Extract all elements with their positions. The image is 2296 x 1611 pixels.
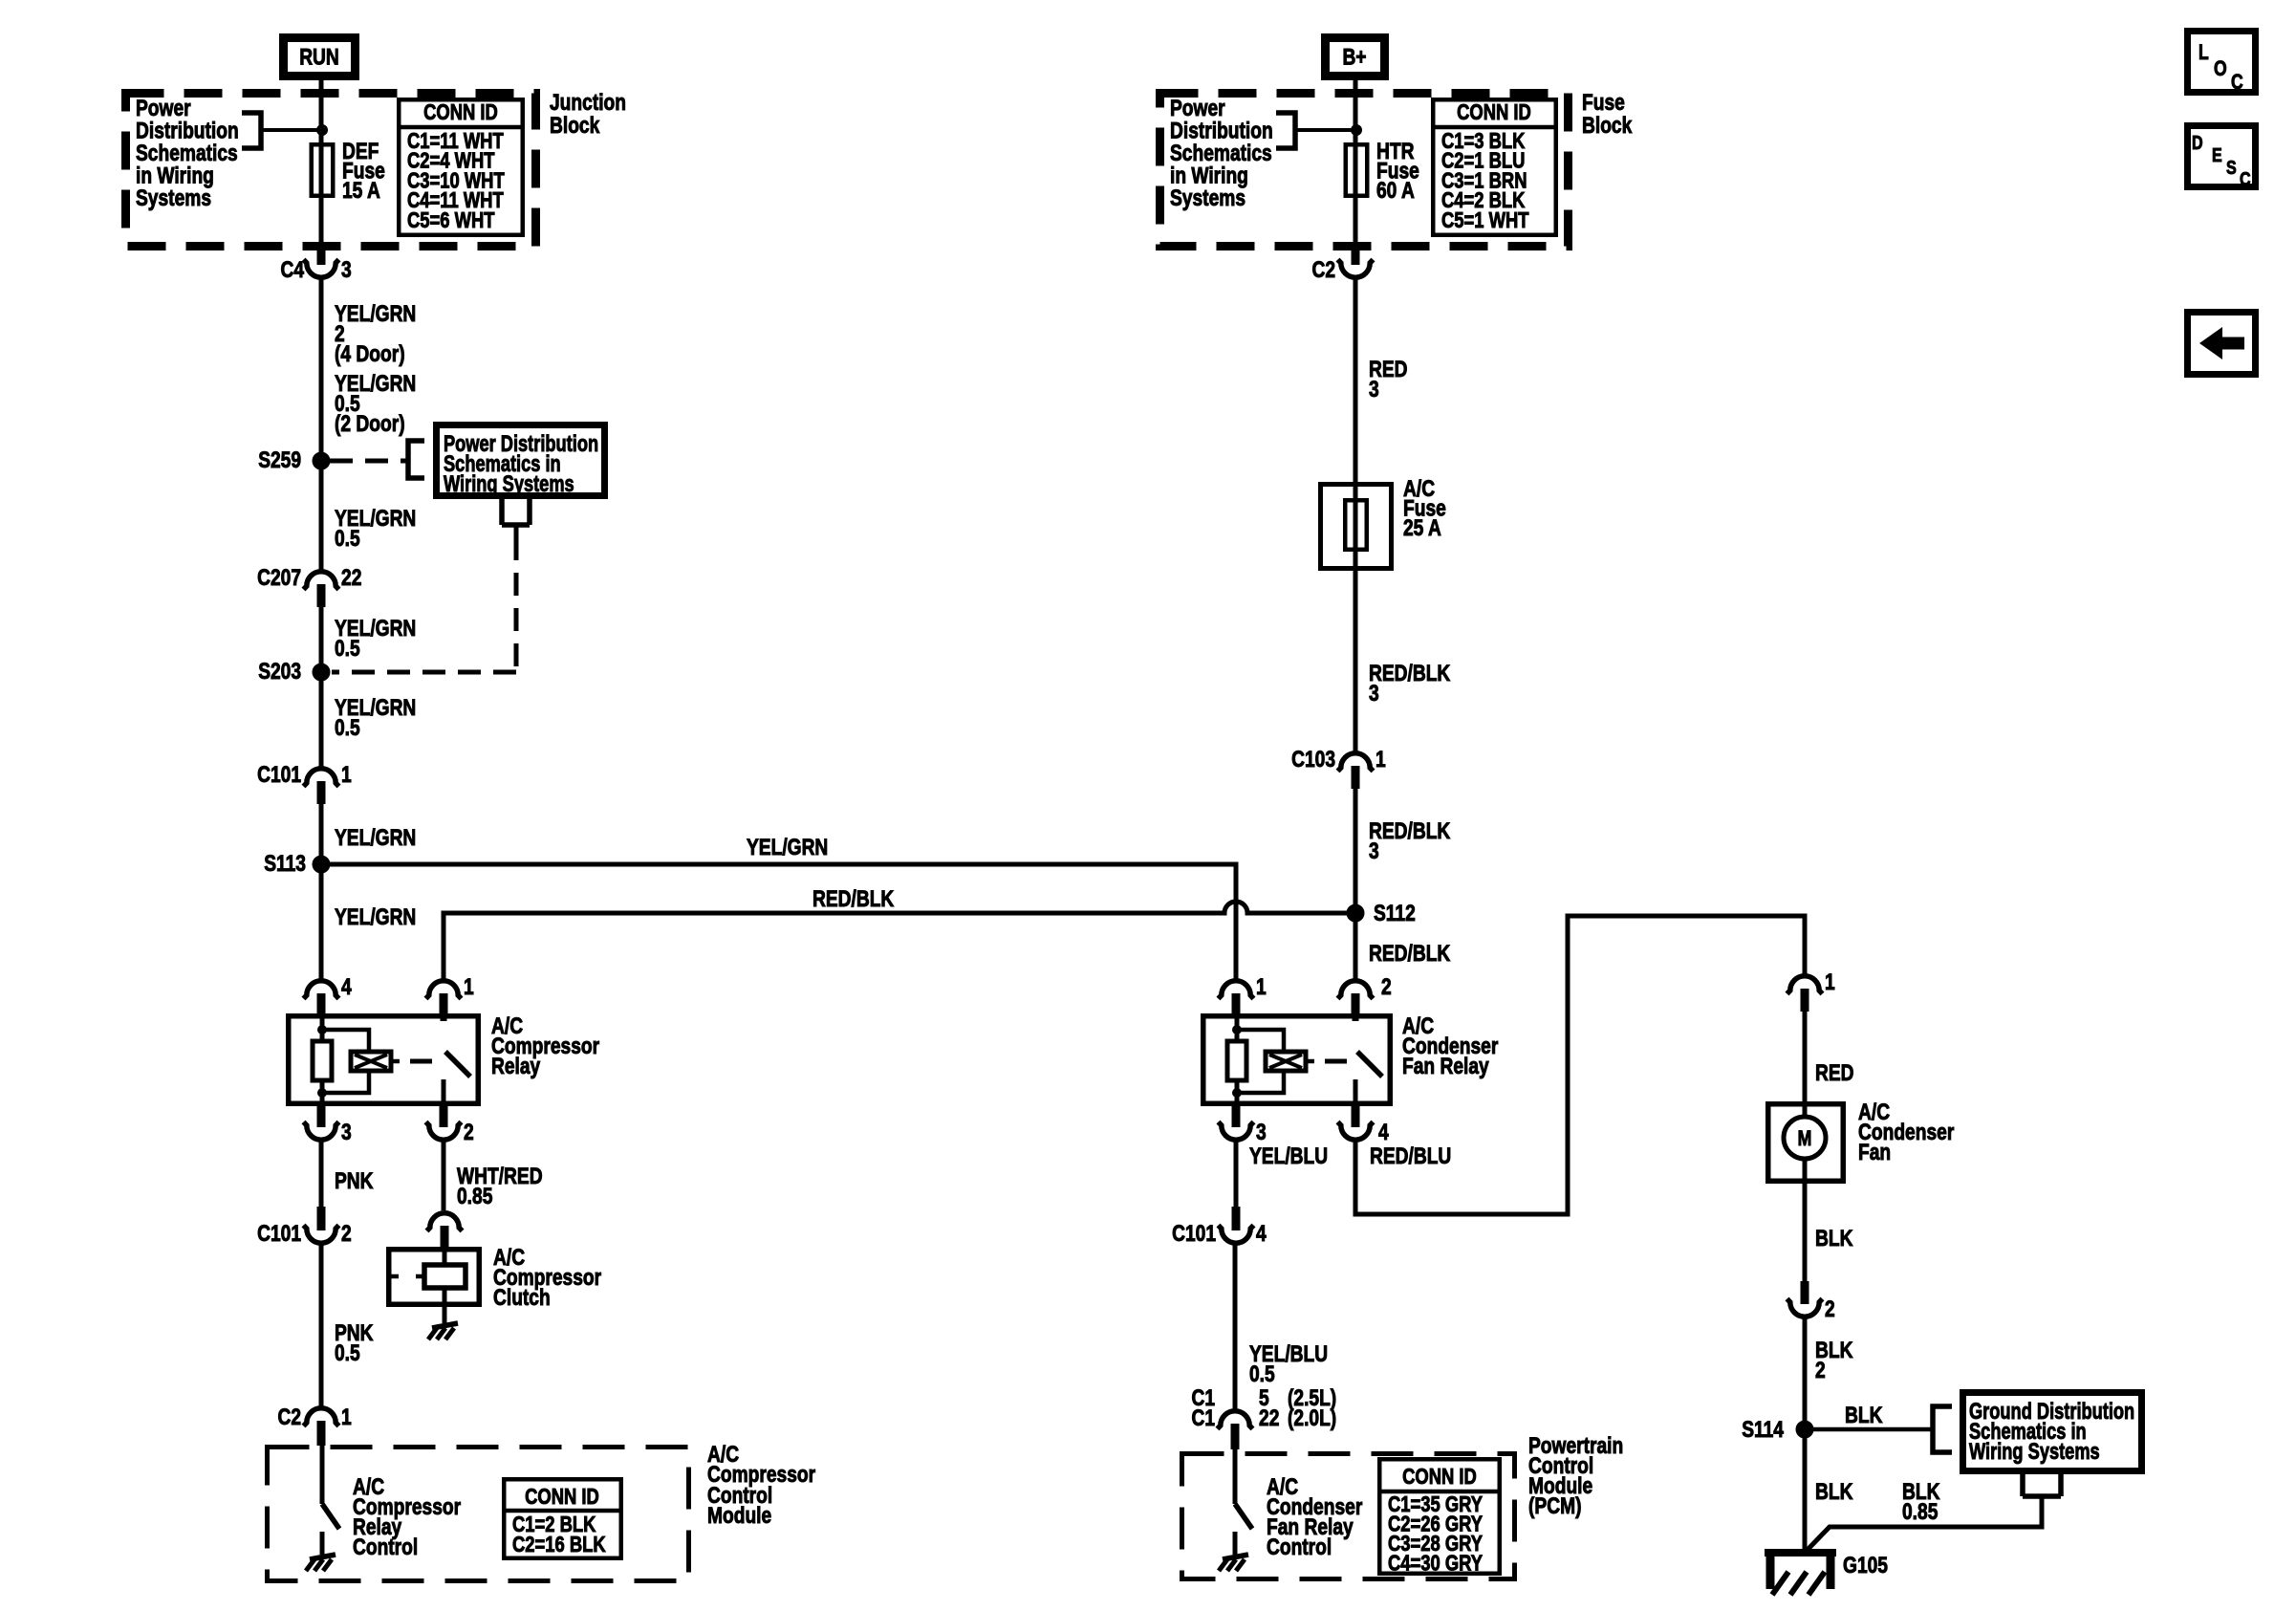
svg-text:Fuse: Fuse	[1582, 90, 1625, 116]
svg-text:0.5: 0.5	[335, 715, 360, 741]
svg-text:C101: C101	[1172, 1221, 1216, 1247]
condenser fan relay box	[1203, 1016, 1391, 1104]
connector compressor relay pin 4	[304, 981, 339, 1013]
connector clutch pin	[427, 1213, 463, 1247]
svg-text:3: 3	[1369, 838, 1379, 864]
svg-text:RED/BLK: RED/BLK	[1369, 941, 1451, 967]
svg-text:3: 3	[1369, 681, 1379, 707]
splice S259	[313, 452, 330, 469]
splice S114	[1796, 1421, 1813, 1438]
connector C1 pin 22 (2.0L)	[1218, 1411, 1253, 1449]
svg-text:C103: C103	[1291, 747, 1335, 773]
svg-text:25 A: 25 A	[1403, 515, 1441, 541]
wire C103 to S112	[1354, 789, 1358, 980]
svg-text:Block: Block	[550, 113, 600, 139]
wire S113 to compressor relay pin 4	[319, 864, 324, 980]
svg-text:C101: C101	[257, 1221, 301, 1247]
svg-text:Module: Module	[707, 1503, 771, 1529]
svg-text:1: 1	[1825, 969, 1835, 995]
svg-text:S203: S203	[258, 659, 301, 685]
svg-text:Clutch: Clutch	[493, 1285, 551, 1311]
svg-text:0.85: 0.85	[457, 1184, 492, 1209]
connector condenser fan relay pin 1	[1219, 981, 1254, 1013]
wire RUN to DEF fuse	[319, 80, 324, 243]
note box Power Distribution Schematics	[437, 425, 605, 496]
svg-text:C207: C207	[257, 565, 301, 591]
svg-text:0.5: 0.5	[335, 526, 360, 552]
icon LOC	[2188, 32, 2256, 93]
svg-text:0.5: 0.5	[335, 1340, 360, 1366]
svg-text:(PCM): (PCM)	[1528, 1493, 1582, 1519]
CONN ID table junction block	[399, 99, 523, 235]
module box A/C Compressor Control Module	[268, 1448, 689, 1581]
condenser fan relay solenoid	[1266, 1052, 1347, 1071]
svg-text:L: L	[2199, 40, 2209, 64]
connector condenser fan pin 2	[1787, 1281, 1823, 1317]
CONN ID table fuse block	[1433, 99, 1556, 235]
svg-text:0.85: 0.85	[1902, 1499, 1938, 1525]
fuse HTR 60A	[1346, 144, 1368, 196]
svg-text:G105: G105	[1843, 1553, 1888, 1578]
compressor relay switch	[444, 1013, 470, 1106]
connector condenser fan relay pin 2	[1338, 981, 1374, 1013]
svg-text:PNK: PNK	[335, 1168, 374, 1194]
svg-text:C5=6 WHT: C5=6 WHT	[407, 207, 495, 232]
svg-text:4: 4	[341, 974, 352, 1000]
svg-text:1: 1	[1256, 974, 1267, 1000]
svg-text:15 A: 15 A	[342, 178, 380, 204]
dashed link note to S203	[502, 499, 530, 525]
condenser fan relay switch	[1355, 1013, 1382, 1106]
wire RED/BLU relay pin4 to condenser fan pin 1	[1355, 916, 1805, 1214]
svg-text:2: 2	[341, 1221, 352, 1247]
wire C2 to C103	[1354, 278, 1358, 752]
svg-text:3: 3	[341, 1120, 352, 1145]
svg-text:D: D	[2192, 133, 2203, 154]
connector compressor relay pin 1	[426, 981, 462, 1013]
svg-text:Junction: Junction	[550, 90, 626, 116]
node junction at DEF fuse	[317, 125, 328, 136]
svg-text:(2.0L): (2.0L)	[1288, 1405, 1336, 1431]
note box Ground Distribution Schematics	[1963, 1393, 2142, 1471]
svg-text:YEL/BLU: YEL/BLU	[1249, 1143, 1328, 1169]
svg-text:1: 1	[341, 1404, 352, 1430]
svg-text:1: 1	[464, 974, 474, 1000]
svg-text:Control: Control	[353, 1535, 418, 1560]
svg-text:CONN ID: CONN ID	[525, 1484, 599, 1509]
svg-text:S114: S114	[1742, 1417, 1784, 1443]
connector compressor relay pin 3	[304, 1106, 339, 1140]
svg-text:C101: C101	[257, 762, 301, 788]
svg-text:2: 2	[1381, 974, 1392, 1000]
svg-text:RED/BLK: RED/BLK	[1369, 661, 1451, 686]
condenser fan relay coil	[1227, 1013, 1284, 1106]
svg-text:CONN ID: CONN ID	[423, 99, 498, 124]
svg-text:22: 22	[1259, 1405, 1279, 1431]
svg-text:S259: S259	[258, 447, 301, 473]
svg-text:Block: Block	[1582, 113, 1633, 139]
svg-text:CONN ID: CONN ID	[1402, 1464, 1477, 1489]
svg-text:RUN: RUN	[299, 45, 339, 71]
svg-text:RED: RED	[1815, 1060, 1854, 1086]
switch A/C Compressor Relay Control	[322, 1446, 339, 1555]
connector C2 fuse block	[1338, 243, 1374, 277]
icon DESC	[2188, 126, 2256, 187]
svg-text:C2: C2	[278, 1404, 302, 1430]
wire C207 to C101	[319, 607, 324, 768]
svg-text:3: 3	[341, 257, 352, 283]
svg-text:S112: S112	[1374, 901, 1416, 926]
fuse A/C 25A	[1321, 485, 1392, 569]
svg-text:Wiring Systems: Wiring Systems	[1969, 1439, 2100, 1465]
svg-text:B+: B+	[1342, 45, 1366, 71]
svg-text:C5=1 WHT: C5=1 WHT	[1441, 207, 1529, 232]
splice S203	[313, 664, 330, 681]
svg-text:YEL/GRN: YEL/GRN	[335, 904, 416, 930]
ground at clutch	[428, 1323, 458, 1339]
ground G105	[1765, 1553, 1836, 1595]
svg-text:22: 22	[341, 565, 361, 591]
svg-text:2: 2	[1815, 1358, 1826, 1383]
compressor relay box	[289, 1016, 479, 1104]
component A/C Compressor Clutch	[389, 1250, 480, 1305]
wire ground note to G105	[2023, 1474, 2061, 1496]
fuse block dashed box	[1160, 94, 1569, 247]
wire C101 to PCM C1	[1233, 1244, 1238, 1410]
svg-text:C2=16 BLK: C2=16 BLK	[512, 1532, 606, 1557]
svg-text:0.5: 0.5	[1249, 1361, 1275, 1387]
svg-text:RED/BLK: RED/BLK	[1369, 818, 1451, 844]
wire YEL/GRN S113 to condenser fan relay pin 1	[321, 864, 1236, 980]
wire pin3 to C101 pin4	[1234, 1141, 1239, 1208]
junction block note bracket	[242, 113, 261, 148]
connector C101 pin 1	[304, 769, 339, 804]
svg-text:S: S	[2226, 158, 2237, 179]
CONN ID table PCM	[1379, 1459, 1500, 1574]
splice S112	[1347, 904, 1364, 922]
svg-text:YEL/GRN: YEL/GRN	[747, 835, 828, 860]
connector condenser fan relay pin 4	[1338, 1106, 1374, 1140]
svg-text:C: C	[2231, 70, 2243, 94]
svg-text:E: E	[2212, 145, 2222, 166]
svg-text:1: 1	[1375, 747, 1386, 773]
svg-text:C2: C2	[1312, 257, 1336, 283]
svg-text:C4: C4	[281, 257, 305, 283]
svg-text:YEL/GRN: YEL/GRN	[335, 825, 416, 851]
svg-text:Systems: Systems	[136, 185, 211, 211]
wire C4 to C207	[319, 278, 324, 571]
svg-text:BLK: BLK	[1815, 1226, 1853, 1252]
svg-text:2: 2	[1825, 1296, 1835, 1322]
svg-text:O: O	[2214, 56, 2227, 80]
svg-text:C4=30 GRY: C4=30 GRY	[1388, 1551, 1483, 1576]
svg-text:4: 4	[1256, 1221, 1267, 1247]
svg-text:2: 2	[464, 1120, 474, 1145]
svg-text:3: 3	[1256, 1120, 1267, 1145]
svg-text:BLK: BLK	[1815, 1479, 1853, 1505]
svg-text:4: 4	[1378, 1120, 1389, 1145]
connector condenser fan relay pin 3	[1219, 1106, 1254, 1140]
svg-text:Wiring Systems: Wiring Systems	[444, 471, 574, 497]
svg-text:BLK: BLK	[1845, 1403, 1883, 1428]
svg-text:(2 Door): (2 Door)	[335, 411, 405, 437]
ground at fan relay control	[1219, 1555, 1248, 1571]
wire motor to pin 2	[1803, 1184, 1808, 1303]
CONN ID table compressor control module	[504, 1479, 621, 1558]
svg-text:Systems: Systems	[1170, 185, 1245, 211]
svg-text:RED/BLU: RED/BLU	[1370, 1143, 1451, 1169]
connector C103 pin 1	[1338, 753, 1374, 789]
wire to condenser fan motor	[1803, 1012, 1808, 1117]
wire B+ to HTR fuse	[1354, 80, 1358, 243]
power source RUN	[284, 38, 356, 76]
svg-text:Control: Control	[1267, 1535, 1332, 1560]
wire pin 2 to S114	[1803, 1317, 1808, 1429]
icon back arrow	[2188, 313, 2256, 375]
svg-text:Fan: Fan	[1858, 1140, 1891, 1165]
fuse block note bracket	[1276, 113, 1295, 148]
svg-text:RED/BLK: RED/BLK	[812, 886, 895, 912]
connector C2 pin 1	[304, 1408, 339, 1446]
splice S113	[313, 856, 330, 873]
svg-text:M: M	[1798, 1126, 1812, 1150]
svg-text:1: 1	[341, 762, 352, 788]
svg-text:60 A: 60 A	[1376, 178, 1415, 204]
svg-text:C1: C1	[1192, 1405, 1216, 1431]
dashed link S259 to note	[330, 459, 408, 464]
connector condenser fan pin 1	[1787, 976, 1823, 1012]
connector C101 pin 4	[1219, 1207, 1254, 1243]
svg-text:YEL/GRN: YEL/GRN	[335, 301, 416, 327]
wire C101 to C2	[319, 1244, 324, 1407]
fuse DEF 15A	[312, 144, 334, 196]
component A/C Condenser Fan motor	[1768, 1104, 1844, 1182]
node junction at HTR fuse	[1352, 125, 1362, 136]
compressor relay solenoid	[351, 1052, 432, 1071]
svg-text:(4 Door): (4 Door)	[335, 341, 405, 367]
svg-text:Relay: Relay	[491, 1054, 541, 1079]
wire RED/BLK S112 to compressor relay pin 1	[444, 902, 1355, 980]
power source B+	[1326, 38, 1385, 76]
junction block dashed box	[126, 94, 536, 247]
svg-text:Fan Relay: Fan Relay	[1402, 1054, 1489, 1079]
svg-text:0.5: 0.5	[335, 636, 360, 662]
switch A/C Condenser Fan Relay Control	[1235, 1449, 1252, 1555]
svg-text:3: 3	[1369, 377, 1379, 403]
svg-text:C: C	[2240, 169, 2251, 190]
wire S114 to ground note	[1805, 1427, 1932, 1432]
connector C4 pin 3	[304, 243, 339, 277]
wire C101 to S113	[319, 804, 324, 864]
wire S114 to ground	[1803, 1429, 1808, 1551]
svg-text:S113: S113	[264, 851, 306, 877]
wire pin2 to clutch connector	[442, 1141, 446, 1210]
wire pin3 to C101 pin2	[319, 1141, 324, 1208]
connector C101 pin 2	[304, 1207, 339, 1243]
ground at relay control	[306, 1555, 336, 1571]
connector C207 pin 22	[304, 572, 339, 607]
svg-text:CONN ID: CONN ID	[1457, 99, 1531, 124]
connector compressor relay pin 2	[426, 1106, 462, 1140]
module box Powertrain Control Module PCM	[1182, 1454, 1515, 1579]
compressor relay coil	[313, 1013, 369, 1106]
